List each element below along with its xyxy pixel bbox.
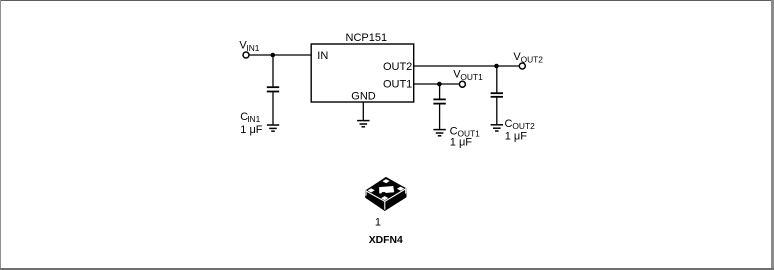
XDFN4 center exposed pad [379, 186, 394, 194]
wire VIN1 input net [246, 54, 311, 56]
svg-text:OUT2: OUT2 [383, 61, 412, 73]
svg-text:XDFN4: XDFN4 [369, 235, 403, 246]
ground for COUT1 [433, 130, 445, 136]
wire COUT2 top [496, 66, 498, 92]
capacitor CIN1 value label [240, 111, 263, 136]
svg-text:1 μF: 1 μF [505, 130, 528, 142]
package name XDFN4 [369, 235, 403, 246]
svg-text:OUT1: OUT1 [460, 72, 483, 82]
XDFN4 package body silhouette [365, 177, 406, 211]
svg-text:C: C [450, 125, 458, 137]
ground for CIN1 [267, 125, 279, 131]
ground for COUT2 [491, 125, 503, 131]
junction OUT1 node [437, 82, 442, 87]
svg-text:OUT1: OUT1 [383, 78, 412, 90]
node label VOUT1 [453, 69, 483, 83]
svg-text:NCP151: NCP151 [346, 32, 388, 44]
wire CIN1 bottom [272, 92, 274, 124]
svg-text:IN1: IN1 [246, 43, 259, 53]
capacitor COUT2 value label [505, 118, 536, 142]
wire COUT1 top [439, 84, 441, 99]
capacitor COUT1 [433, 99, 445, 103]
svg-text:1: 1 [375, 217, 381, 229]
svg-text:GND: GND [351, 90, 376, 102]
junction input node [271, 53, 276, 58]
XDFN4 corner pad bottom [381, 196, 388, 200]
svg-text:IN1: IN1 [247, 114, 260, 124]
capacitor CIN1 [267, 87, 279, 91]
pin OUT2 label [383, 61, 412, 73]
svg-text:1 μF: 1 μF [450, 137, 473, 149]
ground for IC GND pin [357, 121, 369, 127]
wire OUT2 net [414, 65, 519, 67]
wire COUT2 bottom [496, 98, 498, 125]
pin GND label [351, 90, 376, 102]
junction OUT2 node [494, 64, 499, 69]
wire GND pin [362, 102, 364, 120]
svg-text:C: C [505, 118, 513, 130]
svg-text:IN: IN [317, 50, 328, 62]
capacitor COUT2 [491, 93, 503, 97]
label NCP151 [346, 32, 388, 44]
op-amp U1 NCP151 regulator box [311, 44, 414, 102]
terminal VOUT2 [519, 63, 525, 69]
node label VIN1 [239, 40, 259, 53]
terminal VOUT1 [459, 81, 465, 87]
wire COUT1 bottom [439, 105, 441, 129]
wire CIN1 top [272, 55, 274, 86]
wire OUT1 net [414, 83, 459, 85]
svg-text:OUT2: OUT2 [521, 55, 544, 65]
XDFN4 pin-1 notch [382, 192, 386, 194]
node label VOUT2 [513, 51, 543, 64]
XDFN4 package top-face edge highlights [365, 189, 406, 210]
pin OUT1 label [383, 78, 412, 90]
pin 1 marker label [375, 217, 381, 229]
XDFN4 corner pad top [382, 179, 389, 183]
pin IN label [317, 50, 328, 62]
XDFN4 corner pad right [397, 187, 404, 191]
XDFN4 corner pad left [368, 188, 375, 192]
terminal VIN1 [243, 52, 249, 58]
svg-text:1 μF: 1 μF [240, 124, 263, 136]
capacitor COUT1 value label [450, 125, 481, 148]
